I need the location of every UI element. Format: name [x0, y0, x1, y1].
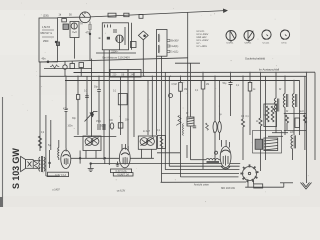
svg-text:UCH -200V: UCH -200V: [197, 33, 209, 36]
svg-text:S 103 GW: S 103 GW: [11, 148, 21, 189]
svg-text:ca 6,3V: ca 6,3V: [117, 190, 126, 193]
svg-text:MW 517 m: MW 517 m: [41, 32, 53, 35]
svg-text:4 6AF7 04: 4 6AF7 04: [117, 173, 129, 176]
svg-text:Sockelschaltbild: Sockelschaltbild: [245, 57, 265, 61]
svg-text:UCL11: UCL11: [263, 43, 270, 45]
svg-text:TA: TA: [80, 23, 83, 26]
svg-text:UBF11: UBF11: [245, 43, 252, 45]
svg-text:100n: 100n: [68, 126, 74, 128]
svg-text:UY11: UY11: [281, 43, 287, 45]
svg-text:40n: 40n: [42, 58, 47, 61]
svg-text:UY -: UY -: [197, 42, 202, 45]
svg-text:5000: 5000: [101, 126, 107, 128]
svg-text:GB: GB: [121, 74, 125, 76]
svg-text:6,3V 0,2A: 6,3V 0,2A: [116, 170, 127, 173]
svg-text:1,5k TA: 1,5k TA: [42, 26, 50, 29]
svg-text:1M: 1M: [184, 89, 187, 91]
svg-text:UCH 11: UCH 11: [197, 30, 206, 33]
svg-text:2500: 2500: [43, 40, 49, 43]
svg-text:Dr: Dr: [279, 88, 282, 91]
svg-text:Dr: Dr: [286, 110, 289, 113]
svg-text:Ansicht unten: Ansicht unten: [194, 184, 210, 187]
svg-text:UCL +100V: UCL +100V: [197, 39, 209, 42]
svg-text:1+L(1): 1+L(1): [171, 51, 178, 54]
svg-text:u 1407: u 1407: [52, 189, 60, 192]
svg-text:2M: 2M: [206, 84, 209, 86]
svg-text:(230): (230): [43, 15, 49, 18]
svg-text:MD 103 GW: MD 103 GW: [221, 187, 235, 190]
svg-text:Im Austauschfall: Im Austauschfall: [259, 68, 280, 72]
svg-text:470: 470: [86, 31, 91, 34]
svg-text:UY +405V: UY +405V: [197, 45, 208, 48]
svg-text:UCH11: UCH11: [226, 43, 234, 45]
svg-text:B+30V: B+30V: [171, 40, 179, 43]
svg-text:4+4(1): 4+4(1): [171, 45, 178, 48]
svg-text:0,5M: 0,5M: [172, 84, 177, 86]
svg-text:470p: 470p: [63, 109, 69, 111]
svg-text:150p: 150p: [96, 121, 102, 123]
svg-text:2x AF7: 2x AF7: [143, 130, 151, 133]
svg-text:50µ: 50µ: [223, 83, 228, 85]
svg-text:UBF -80V: UBF -80V: [197, 36, 208, 39]
svg-text:Dr: Dr: [186, 112, 189, 115]
svg-text:6,3V 0,1A: 6,3V 0,1A: [55, 174, 66, 177]
svg-text:220V~: 220V~: [111, 51, 119, 54]
svg-text:Bei Allstrom 110-240V: Bei Allstrom 110-240V: [103, 56, 131, 60]
